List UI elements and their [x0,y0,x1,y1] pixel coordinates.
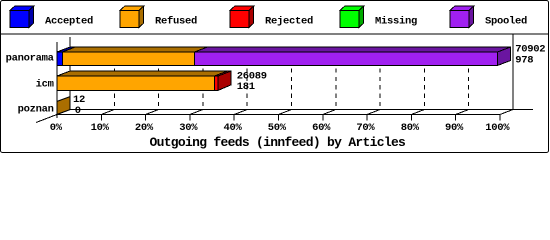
svg-text:90%: 90% [445,122,464,134]
legend cube Missing [340,6,364,27]
spooled segment side face [498,47,511,66]
svg-text:20%: 20% [135,122,154,134]
front x-axis line [57,114,501,116]
accepted segment front face [57,52,62,66]
front y-axis [56,42,58,118]
svg-text:0: 0 [75,105,81,117]
outer border [1,1,549,153]
svg-text:icm: icm [36,78,54,90]
x axis labels [50,122,511,134]
back x-axis line [70,109,533,111]
rejected segment top face [215,71,232,76]
svg-text:50%: 50% [268,122,287,134]
refused segment top face [57,71,228,76]
svg-text:10%: 10% [91,122,110,134]
legend cube Accepted [10,6,34,27]
legend separator line [1,33,548,35]
axis tick diagonals and ticks [101,110,513,115]
bar panorama (row 1) [57,47,511,66]
svg-text:70%: 70% [356,122,375,134]
svg-text:Refused: Refused [155,16,197,28]
svg-text:80%: 80% [401,122,420,134]
bar icm (row 2) [57,71,231,90]
svg-text:Spooled: Spooled [485,16,527,28]
accepted segment top face [57,47,75,52]
spooled segment top face [195,47,511,52]
spooled segment front face [195,52,498,66]
svg-text:40%: 40% [223,122,242,134]
legend cube Rejected [230,6,254,27]
svg-text:60%: 60% [312,122,331,134]
back y-axis [69,37,71,109]
dashed gridlines 10%..90% [114,52,468,110]
svg-text:Missing: Missing [375,16,417,28]
svg-text:30%: 30% [179,122,198,134]
svg-text:poznan: poznan [18,104,54,116]
svg-text:Accepted: Accepted [45,16,93,28]
legend cube Spooled [450,6,474,27]
svg-text:Rejected: Rejected [265,16,313,28]
svg-text:100%: 100% [485,122,510,134]
refused segment front face [62,52,194,66]
rejected segment front face [215,76,219,90]
svg-text:Outgoing feeds (innfeed) by Ar: Outgoing feeds (innfeed) by Articles [150,135,407,150]
legend cube Refused [120,6,144,27]
origin depth diagonal [36,110,70,123]
refused segment top face [62,47,207,52]
svg-text:0%: 0% [50,122,63,134]
refused segment front face [57,76,215,90]
rejected segment side face [218,71,231,90]
svg-text:181: 181 [237,81,255,93]
solid 100% line [512,35,514,110]
bar poznan (row 3, zero-width: side face only) [57,97,70,115]
svg-text:978: 978 [515,55,533,67]
svg-text:panorama: panorama [6,52,55,64]
